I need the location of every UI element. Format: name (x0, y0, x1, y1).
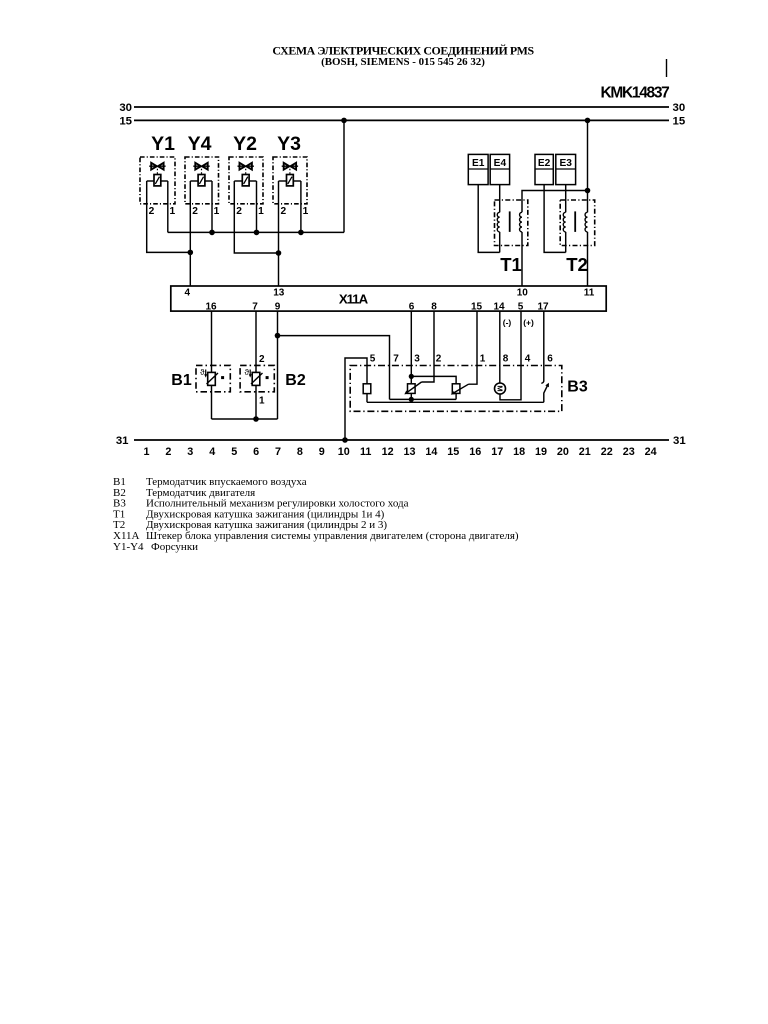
svg-text:1: 1 (143, 446, 149, 458)
injector Y2 (229, 133, 264, 217)
svg-text:Штекер блока управления систем: Штекер блока управления системы управлен… (146, 530, 519, 542)
svg-text:18: 18 (513, 446, 525, 458)
svg-text:2: 2 (192, 206, 198, 217)
svg-text:ϑ: ϑ (200, 368, 205, 377)
winding 1 of B3 (408, 384, 416, 394)
svg-text:31: 31 (116, 435, 129, 447)
svg-text:30: 30 (119, 102, 132, 114)
svg-text:24: 24 (645, 446, 657, 458)
svg-text:B3: B3 (567, 379, 588, 396)
svg-text:2: 2 (280, 206, 286, 217)
svg-text:5: 5 (231, 446, 237, 458)
wire B1 bottom (211, 385, 213, 419)
motor M in B3 (495, 383, 506, 394)
wire X11A pin 9 drop (277, 311, 279, 419)
junction T1 primary / T2 drop (585, 188, 591, 194)
connector E2 (535, 154, 553, 184)
svg-text:15: 15 (673, 115, 686, 127)
ignition coil T2 (560, 200, 595, 275)
wire Y4 pin1 drop (211, 181, 213, 232)
svg-text:7: 7 (393, 354, 399, 365)
svg-text:3: 3 (414, 354, 420, 365)
svg-text:9: 9 (319, 446, 325, 458)
svg-text:2: 2 (436, 354, 442, 365)
svg-text:11: 11 (584, 287, 595, 298)
svg-text:31: 31 (673, 435, 686, 447)
wire Y3 pin2 to X11A pin 13 (278, 181, 280, 286)
svg-text:M: M (495, 385, 504, 391)
terminal numbers 1-24 (143, 446, 656, 458)
svg-text:1: 1 (303, 206, 309, 217)
wire resistor to bottom rail (366, 394, 368, 403)
junction winding1 bottom (409, 397, 414, 402)
bus 15 (134, 119, 669, 121)
junction Y1/Y4 pin2 (188, 250, 194, 256)
wire B2 bottom (255, 385, 257, 419)
wire Y4 pin2 to X11A pin 4 (189, 181, 191, 286)
junction pin 9 / B3 branch (275, 333, 281, 339)
wire Y1 pin2 drop and jog (147, 181, 191, 252)
junction bus15 / T2 primary (585, 118, 591, 124)
connector E1 (468, 154, 488, 184)
wire sensor common (212, 418, 278, 420)
bus 30 (134, 106, 669, 108)
wire T1 secondary bottom stub (499, 232, 501, 253)
svg-text:KMK14837: KMK14837 (601, 85, 670, 102)
svg-text:13: 13 (273, 287, 285, 298)
wire T2 secondary bottom stub (565, 232, 567, 253)
svg-text:23: 23 (623, 446, 635, 458)
junction Y2/Y3 pin2 (276, 250, 282, 256)
svg-text:7: 7 (252, 301, 258, 312)
wire E3 to T2 secondary top (565, 185, 567, 213)
svg-text:13: 13 (403, 446, 415, 458)
wire Y1 pin1 drop (167, 181, 169, 232)
svg-text:Y2: Y2 (233, 133, 257, 155)
svg-text:2: 2 (149, 206, 155, 217)
wire E2 to T2 secondary bottom (544, 185, 566, 253)
fold mark (666, 59, 668, 77)
svg-text:B2: B2 (285, 372, 306, 389)
wire Y3 pin1 drop (300, 181, 302, 232)
legend (113, 476, 519, 553)
svg-text:8: 8 (297, 446, 303, 458)
wire winding top rail (411, 376, 456, 383)
wire winding1 bottom stub (410, 393, 412, 399)
wire winding2 bottom stub (455, 393, 457, 399)
arrow winding 2 (452, 384, 469, 394)
wire X11A pin 17 to switch contact (541, 311, 544, 383)
wire T1 primary to X11A pin 10 (521, 232, 523, 286)
svg-text:1: 1 (214, 206, 220, 217)
connector X11A (171, 286, 606, 312)
junction Y4 pin1 (209, 230, 215, 236)
svg-text:8: 8 (503, 354, 509, 365)
wire B3 pin7 to winding rail (390, 398, 457, 400)
svg-text:1: 1 (169, 206, 175, 217)
wire X11A pin 6 to B3 pin 3 / winding 1 top (410, 311, 412, 384)
svg-text:E3: E3 (559, 158, 572, 169)
winding 2 of B3 (452, 384, 460, 394)
svg-text:(-): (-) (503, 318, 512, 328)
wire bus31 to B3 pin 5 (345, 358, 367, 440)
switch in B3 (544, 384, 548, 402)
svg-text:7: 7 (275, 446, 281, 458)
wire X11A pin 8 to winding1 arrow (422, 311, 435, 382)
svg-text:E2: E2 (538, 158, 551, 169)
svg-text:17: 17 (537, 301, 549, 312)
svg-text:30: 30 (673, 102, 686, 114)
wire Y2 pin2 drop and jog (234, 181, 278, 253)
wire X11A pin 15 to winding2 arrow (469, 311, 478, 384)
wire Y2 pin1 drop (256, 181, 258, 232)
svg-text:1: 1 (480, 354, 486, 365)
wire feed rail to bus 15 (343, 120, 345, 232)
ignition coil T1 (495, 200, 528, 275)
svg-text:E4: E4 (494, 158, 507, 169)
svg-text:1: 1 (259, 396, 265, 407)
wire X11A pin 16 to B1 (211, 311, 213, 372)
junction bus 31 / B3 pin 5 (342, 437, 348, 443)
idle actuator B3 box (350, 366, 562, 412)
svg-text:14: 14 (493, 301, 505, 312)
wire E4 to T1 secondary top (499, 185, 501, 213)
temperature sensor B1 (171, 365, 230, 391)
bus 31 (134, 439, 669, 441)
svg-text:Y4: Y4 (188, 133, 212, 155)
svg-text:16: 16 (205, 301, 217, 312)
svg-text:11: 11 (360, 446, 371, 458)
svg-text:B1: B1 (171, 372, 192, 389)
svg-text:20: 20 (557, 446, 569, 458)
svg-text:(BOSH, SIEMENS - 015 545 26 32: (BOSH, SIEMENS - 015 545 26 32) (321, 56, 485, 68)
svg-text:6: 6 (409, 301, 415, 312)
junction bus15 / injector feed (341, 118, 347, 124)
svg-text:3: 3 (187, 446, 193, 458)
connector E4 (490, 154, 509, 184)
wire T2 primary to X11A pin 11 (587, 232, 589, 286)
wire E1 to T1 secondary bottom (478, 185, 500, 253)
svg-text:E1: E1 (472, 158, 485, 169)
svg-text:2: 2 (259, 354, 265, 365)
B3 pin labels (370, 354, 554, 365)
wire bus15 through T2 primary (587, 120, 589, 212)
junction winding1 top (409, 374, 414, 379)
wire B3 bottom rail (367, 401, 544, 403)
svg-text:T1: T1 (500, 254, 522, 275)
temperature sensor B2 (240, 354, 306, 407)
injector Y4 (185, 133, 220, 217)
svg-text:12: 12 (382, 446, 394, 458)
arrow winding 1 (406, 382, 422, 393)
svg-text:4: 4 (185, 287, 191, 298)
svg-text:Y1: Y1 (151, 133, 175, 155)
junction Y3 pin1 (298, 230, 304, 236)
wire T1 primary top to bus15 drop (522, 191, 588, 213)
wire X11A pin 14 to motor (499, 311, 501, 383)
injector Y1 (140, 133, 175, 217)
svg-text:15: 15 (119, 115, 132, 127)
svg-text:5: 5 (518, 301, 524, 312)
svg-text:17: 17 (491, 446, 503, 458)
svg-text:16: 16 (469, 446, 481, 458)
resistor in B3 (363, 384, 371, 394)
svg-text:10: 10 (517, 287, 529, 298)
svg-text:9: 9 (275, 301, 281, 312)
wire motor to B3 pin 4 (500, 311, 521, 400)
svg-text:4: 4 (209, 446, 215, 458)
svg-text:ϑ: ϑ (244, 368, 249, 377)
svg-text:T2: T2 (566, 254, 588, 275)
svg-text:5: 5 (370, 354, 376, 365)
wire X11A pin 7 to B2 (255, 311, 257, 372)
svg-text:2: 2 (236, 206, 242, 217)
svg-text:Y3: Y3 (277, 133, 301, 155)
svg-text:8: 8 (431, 301, 437, 312)
injector Y3 (273, 133, 309, 217)
svg-text:19: 19 (535, 446, 547, 458)
svg-text:10: 10 (338, 446, 350, 458)
wire pin 9 branch to B3 pin 7 (278, 336, 390, 400)
svg-text:Y1-Y4: Y1-Y4 (113, 541, 144, 553)
junction Y2 pin1 (254, 230, 260, 236)
svg-text:(+): (+) (523, 318, 534, 328)
svg-text:1: 1 (258, 206, 264, 217)
wire injector feed rail (168, 231, 344, 233)
svg-text:21: 21 (579, 446, 591, 458)
svg-text:X11A: X11A (339, 292, 369, 307)
svg-text:2: 2 (165, 446, 171, 458)
connector E3 (556, 154, 576, 184)
svg-text:6: 6 (547, 354, 553, 365)
svg-text:22: 22 (601, 446, 613, 458)
junction B2 / common (253, 416, 259, 422)
svg-text:Форсунки: Форсунки (151, 541, 198, 553)
svg-text:15: 15 (471, 301, 483, 312)
svg-text:6: 6 (253, 446, 259, 458)
svg-text:14: 14 (425, 446, 437, 458)
svg-text:15: 15 (447, 446, 459, 458)
svg-text:4: 4 (525, 354, 531, 365)
